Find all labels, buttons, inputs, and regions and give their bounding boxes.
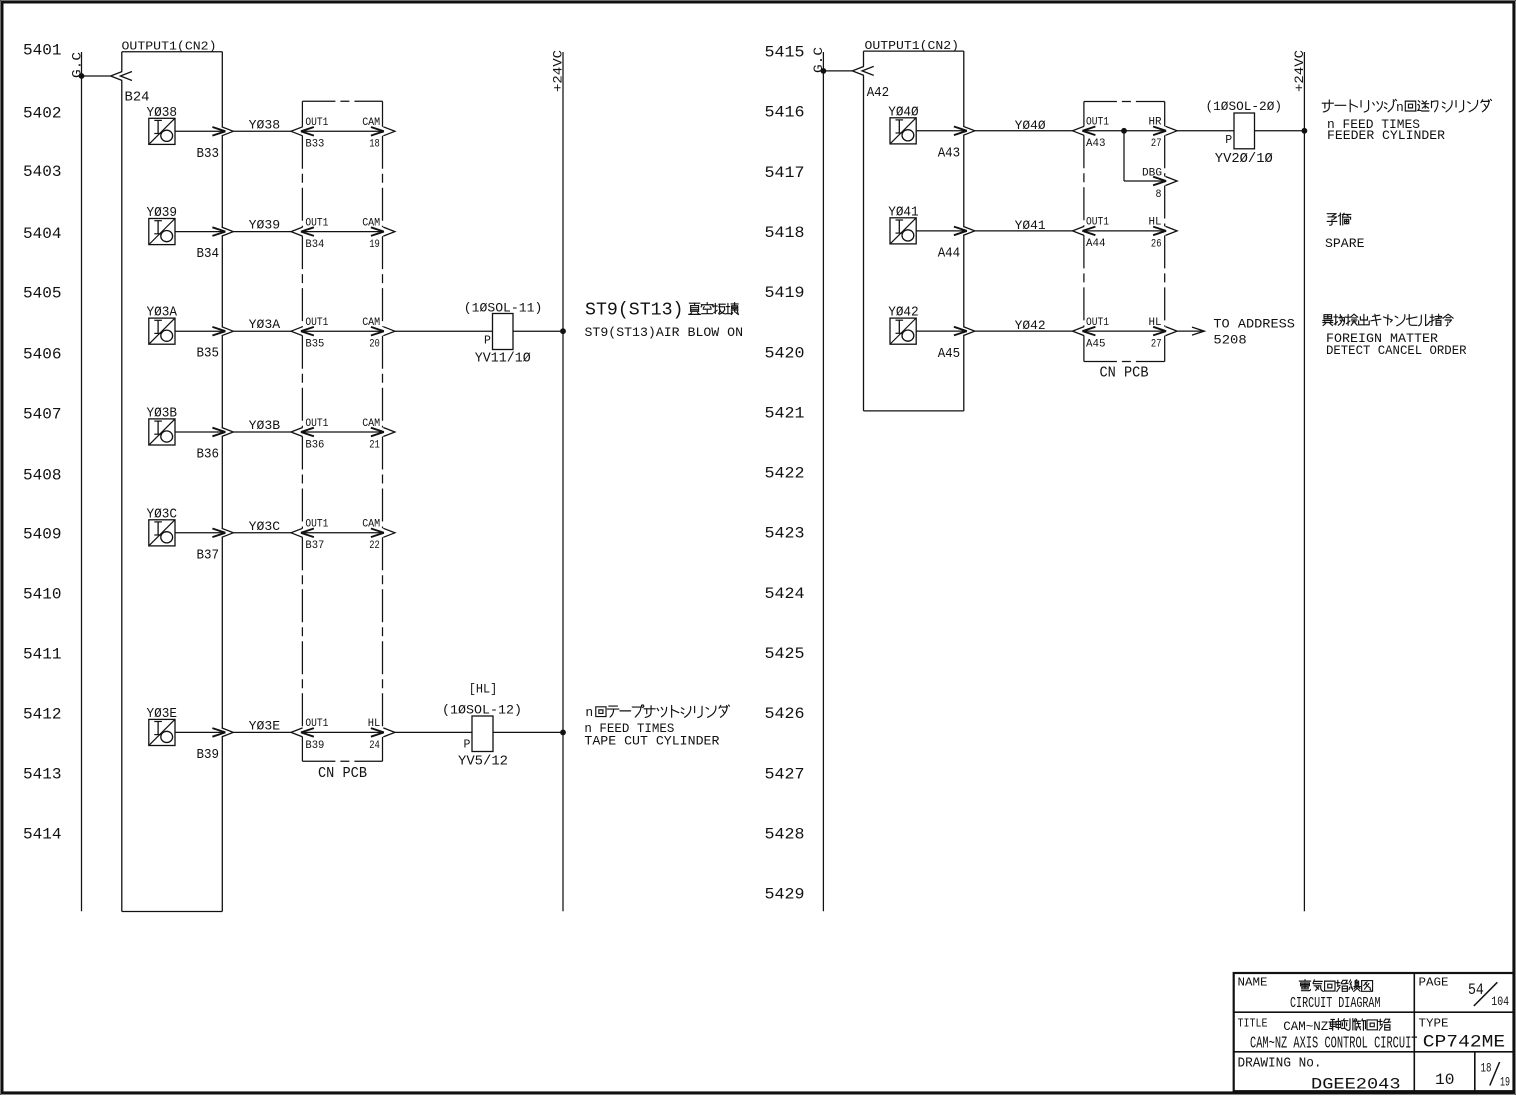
svg-text:B35: B35 — [305, 339, 324, 351]
pin labels OUT1 / A43 — [1086, 117, 1109, 151]
svg-text:5208: 5208 — [1213, 333, 1246, 348]
svg-text:P: P — [464, 739, 471, 752]
svg-text:5413: 5413 — [23, 766, 62, 784]
svg-text:YØ39: YØ39 — [147, 205, 178, 221]
svg-text:A43: A43 — [938, 146, 961, 162]
svg-text:YØ41: YØ41 — [1015, 219, 1046, 233]
svg-text:OUT1: OUT1 — [305, 418, 328, 430]
connector CN PCB dashed box (right) — [1084, 102, 1165, 362]
svg-text:26: 26 — [1151, 238, 1162, 250]
svg-text:YØ39: YØ39 — [249, 219, 280, 233]
svg-text:TYPE: TYPE — [1419, 1017, 1449, 1030]
pin label B24 — [125, 90, 150, 106]
pin label A42 — [867, 85, 890, 101]
label Y038 above driver — [147, 105, 178, 121]
svg-text:5406: 5406 — [23, 346, 62, 364]
label Y03E above driver — [147, 706, 178, 722]
wire OUT1 to CAM inside CN PCB — [301, 330, 384, 332]
label OUTPUT1(CN2) (left) — [122, 40, 217, 54]
svg-text:5429: 5429 — [765, 886, 805, 904]
svg-text:YØ3C: YØ3C — [249, 520, 280, 534]
svg-text:+24VC: +24VC — [551, 50, 566, 92]
svg-text:20: 20 — [369, 339, 380, 351]
svg-text:B24: B24 — [125, 90, 150, 106]
svg-text:YØ41: YØ41 — [888, 204, 919, 220]
svg-text:CAM~NZ: CAM~NZ — [1283, 1019, 1328, 1034]
annotation n feed times tape cut cylinder — [584, 705, 729, 749]
svg-text:18: 18 — [1481, 1060, 1492, 1075]
net G.C (right) — [812, 47, 826, 73]
label Y039 above driver — [147, 205, 178, 221]
pin labels CAM / 19 — [362, 217, 380, 251]
svg-text:n: n — [1396, 100, 1404, 115]
wire Y042 to address 5208 — [1177, 330, 1204, 332]
pin label B39 — [197, 747, 220, 763]
net label Y039 — [249, 219, 280, 233]
connector arrow Y042 at OUTPUT1 edge pin A45 — [954, 327, 975, 336]
svg-text:B33: B33 — [305, 139, 324, 151]
svg-text:5418: 5418 — [765, 224, 805, 242]
svg-text:5424: 5424 — [765, 585, 805, 603]
svg-text:OUT1: OUT1 — [305, 718, 328, 730]
connector arrows Y03E into CN PCB pin B39 — [291, 728, 314, 737]
output driver Y039 (I/O symbol) — [149, 219, 175, 245]
svg-text:A42: A42 — [867, 85, 890, 101]
pin labels HR / 27 — [1149, 117, 1162, 151]
svg-text:CIRCUIT DIAGRAM: CIRCUIT DIAGRAM — [1290, 995, 1381, 1012]
svg-text:5427: 5427 — [765, 765, 805, 783]
label OUTPUT1(CN2) (right) — [865, 39, 960, 53]
svg-text:YØ42: YØ42 — [1015, 319, 1046, 333]
node +24VC junction at Y03E row — [560, 730, 566, 736]
wire solenoid YV5/12 to +24VC — [493, 731, 563, 733]
pin labels HL / 27 — [1149, 317, 1162, 351]
svg-text:B37: B37 — [197, 547, 220, 563]
wire G.C to OUTPUT1(CN2) pin B24 — [82, 75, 111, 77]
label [HL] — [469, 682, 498, 697]
svg-text:YØ3A: YØ3A — [249, 318, 281, 332]
node G.C junction (left) — [79, 73, 85, 79]
wire OUT1 to HL inside CN PCB (right) — [1083, 330, 1166, 332]
title block PAGE cell 54/104 — [1419, 977, 1510, 1010]
wire G.C bus (left) — [81, 52, 83, 911]
svg-text:5407: 5407 — [23, 406, 62, 424]
svg-text:P: P — [1225, 134, 1232, 147]
svg-text:PAGE: PAGE — [1419, 977, 1449, 990]
svg-text:19: 19 — [369, 239, 380, 251]
svg-text:OUT1: OUT1 — [305, 117, 328, 129]
pin label A44 — [938, 246, 961, 262]
svg-text:5414: 5414 — [23, 826, 62, 844]
connector arrow Y03C at OUTPUT1 edge pin B37 — [212, 528, 233, 537]
label YV5/12 — [458, 755, 508, 770]
svg-text:OUT1: OUT1 — [305, 317, 328, 329]
pin label B35 — [197, 346, 220, 362]
output driver Y038 (I/O symbol) — [149, 118, 175, 144]
pin labels OUT1 / B33 — [305, 117, 328, 151]
svg-text:5415: 5415 — [765, 44, 805, 62]
svg-text:YØ3E: YØ3E — [147, 706, 178, 722]
svg-text:CP742ME: CP742ME — [1423, 1033, 1505, 1053]
svg-text:B36: B36 — [197, 447, 220, 463]
wire Y041 driver output — [916, 230, 967, 232]
svg-text:A45: A45 — [1086, 338, 1106, 350]
connector CN PCB dashed box (left) — [302, 101, 382, 761]
net label Y03A — [249, 318, 281, 332]
connector arrows Y040 into CN PCB pin A43 — [1073, 126, 1096, 135]
svg-text:YV11/1Ø: YV11/1Ø — [475, 352, 531, 367]
annotation ST9(ST13) air blow — [585, 300, 744, 341]
svg-text:B36: B36 — [305, 439, 324, 451]
svg-text:TITLE: TITLE — [1238, 1017, 1268, 1030]
svg-text:5417: 5417 — [765, 164, 805, 182]
svg-text:TO ADDRESS: TO ADDRESS — [1213, 317, 1295, 332]
svg-text:DRAWING No.: DRAWING No. — [1238, 1057, 1322, 1072]
connector arrow Y041 at OUTPUT1 edge pin A44 — [954, 226, 975, 235]
pin labels OUT1 / A45 — [1086, 317, 1109, 351]
pin labels OUT1 / B34 — [305, 217, 328, 251]
svg-text:21: 21 — [369, 439, 380, 451]
svg-text:[HL]: [HL] — [469, 682, 498, 697]
wire Y042 driver output — [916, 330, 967, 332]
svg-text:YØ3E: YØ3E — [249, 719, 280, 733]
wire OUT1 to CAM inside CN PCB — [301, 532, 384, 534]
label Y03C above driver — [147, 506, 178, 522]
output driver Y041 (I/O symbol) — [890, 218, 916, 244]
output driver Y03C (I/O symbol) — [149, 520, 175, 546]
pin label A45 — [938, 346, 961, 362]
svg-text:DGEE2043: DGEE2043 — [1311, 1076, 1401, 1094]
connector arrows HL out of CN PCB pin 26 — [1153, 226, 1177, 235]
label (10SOL-11) — [464, 301, 543, 316]
pin label B36 — [197, 447, 220, 463]
wire Y03C driver output — [175, 532, 225, 534]
pin label B37 — [197, 547, 220, 563]
+24VC bus (right) — [1292, 50, 1307, 912]
svg-text:104: 104 — [1491, 994, 1509, 1009]
svg-text:5420: 5420 — [765, 344, 805, 362]
label Y040 above driver — [888, 104, 919, 120]
svg-text:OUTPUT1(CN2): OUTPUT1(CN2) — [122, 40, 217, 54]
svg-text:A45: A45 — [938, 346, 961, 362]
title block TYPE cell CP742ME — [1419, 1017, 1506, 1052]
svg-text:5419: 5419 — [765, 284, 805, 302]
svg-text:B39: B39 — [305, 740, 324, 752]
svg-text:CN PCB: CN PCB — [1100, 366, 1149, 382]
wire Y03A to solenoid YV11/10 — [395, 330, 493, 332]
title block frame — [1234, 973, 1514, 1091]
wire G.C to OUTPUT1(CN2) pin A42 — [823, 70, 852, 72]
connector arrow Y03A at OUTPUT1 edge pin B35 — [212, 327, 233, 336]
wire solenoid YV20/10 to +24VC — [1255, 130, 1305, 132]
wire Y03A driver output — [175, 330, 225, 332]
net label Y040 — [1015, 119, 1047, 133]
wire Y03C to CN PCB — [233, 532, 291, 534]
svg-text:DBG: DBG — [1142, 168, 1162, 180]
svg-text:5409: 5409 — [23, 526, 62, 544]
wire Y03E to solenoid YV5/12 — [395, 731, 472, 733]
svg-text:5410: 5410 — [23, 586, 62, 604]
svg-text:27: 27 — [1151, 138, 1162, 150]
connector arrow Y039 at OUTPUT1 edge pin B34 — [212, 227, 233, 236]
title block TITLE cell — [1238, 1017, 1418, 1052]
PLC output connector OUTPUT1(CN2) box (right) — [864, 51, 964, 411]
label YV11/10 — [475, 352, 531, 367]
svg-text:10: 10 — [1435, 1071, 1455, 1089]
node +24VC junction at Y03A row — [560, 328, 566, 334]
svg-text:5401: 5401 — [23, 42, 62, 60]
wire Y038 to CN PCB — [233, 130, 291, 132]
pin label B34 — [197, 246, 220, 262]
wire DBG branch — [1124, 131, 1166, 181]
solenoid YV11/10 (10SOL-11) — [484, 314, 513, 350]
connector arrows DBG pin 8 — [1153, 177, 1177, 186]
svg-text:B34: B34 — [305, 239, 324, 251]
net label Y038 — [249, 118, 280, 132]
net label Y042 — [1015, 319, 1046, 333]
svg-text:YV2Ø/1Ø: YV2Ø/1Ø — [1215, 152, 1273, 167]
svg-text:CN PCB: CN PCB — [318, 766, 367, 782]
pin labels HL / 24 — [368, 718, 381, 752]
connector arrows HR out of CN PCB pin 27 — [1153, 126, 1177, 135]
wire OUT1 to CAM inside CN PCB — [301, 130, 384, 132]
svg-text:B35: B35 — [197, 346, 220, 362]
svg-text:5411: 5411 — [23, 646, 62, 664]
connector arrows CAM out of CN PCB pin 21 — [371, 428, 395, 437]
wire Y03A to CN PCB — [233, 330, 291, 332]
svg-text:YØ38: YØ38 — [249, 118, 280, 132]
svg-text:CAM~NZ AXIS CONTROL CIRCUIT: CAM~NZ AXIS CONTROL CIRCUIT — [1250, 1034, 1418, 1053]
svg-text:B39: B39 — [197, 747, 220, 763]
wire OUT1 to CAM inside CN PCB — [301, 431, 384, 433]
arrow to address 5208 — [1192, 327, 1204, 335]
node +24VC junction at Y040 row — [1302, 128, 1308, 134]
wire OUT1 to CAM inside CN PCB — [301, 231, 384, 233]
wire Y042 to CN PCB — [975, 330, 1073, 332]
svg-text:ST9(ST13)AIR BLOW ON: ST9(ST13)AIR BLOW ON — [585, 325, 744, 340]
svg-text:n: n — [585, 705, 593, 720]
pin label B33 — [197, 146, 220, 162]
svg-text:18: 18 — [369, 139, 380, 151]
wire Y040 driver output — [916, 130, 967, 132]
connector arrows CAM out of CN PCB pin 18 — [371, 127, 395, 136]
svg-text:OUT1: OUT1 — [1086, 317, 1109, 329]
wire OUT1 to HR inside CN PCB (right) — [1083, 130, 1166, 132]
pin labels CAM / 20 — [362, 317, 380, 351]
svg-text:P: P — [484, 335, 491, 348]
wire Y040 to CN PCB — [975, 130, 1073, 132]
connector arrows CAM out of CN PCB pin 22 — [371, 528, 395, 537]
connector chevrons G.C at OUTPUT1(CN2) left edge — [111, 72, 132, 81]
svg-text:B33: B33 — [197, 146, 220, 162]
wire Y041 to CN PCB — [975, 230, 1073, 232]
svg-text:YØ42: YØ42 — [888, 305, 919, 321]
label CN PCB (right) — [1100, 366, 1149, 382]
svg-text:+24VC: +24VC — [1292, 50, 1307, 92]
wire solenoid YV11/10 to +24VC — [513, 330, 563, 332]
right line-number column 5415-5429 — [765, 44, 805, 904]
label Y03B above driver — [147, 406, 178, 422]
svg-text:22: 22 — [369, 540, 380, 552]
svg-text:OUTPUT1(CN2): OUTPUT1(CN2) — [865, 39, 960, 53]
svg-text:FEEDER CYLINDER: FEEDER CYLINDER — [1327, 128, 1445, 143]
net G.C (left) — [71, 52, 85, 78]
wire G.C bus (right) — [822, 52, 824, 911]
connector arrows Y038 into CN PCB pin B33 — [291, 127, 314, 136]
svg-text:DETECT CANCEL ORDER: DETECT CANCEL ORDER — [1326, 343, 1467, 358]
svg-text:B34: B34 — [197, 246, 220, 262]
svg-text:5422: 5422 — [765, 465, 805, 483]
title block NAME cell — [1238, 977, 1381, 1013]
svg-text:5426: 5426 — [765, 705, 805, 723]
wire OUT1 to HL inside CN PCB (right) — [1083, 230, 1166, 232]
net label Y03C — [249, 520, 280, 534]
svg-text:5402: 5402 — [23, 105, 62, 123]
pin labels OUT1 / B35 — [305, 317, 328, 351]
svg-text:YØ3A: YØ3A — [147, 305, 178, 321]
output driver Y03B (I/O symbol) — [149, 419, 175, 445]
pin labels OUT1 / B36 — [305, 418, 328, 452]
connector arrows Y041 into CN PCB pin A44 — [1073, 226, 1096, 235]
svg-text:B37: B37 — [305, 540, 324, 552]
pin labels OUT1 / B39 — [305, 718, 328, 752]
label (10SOL-12) — [442, 703, 522, 718]
svg-text:5405: 5405 — [23, 285, 62, 303]
label (10SOL-20) — [1206, 99, 1283, 114]
wire Y039 to CN PCB — [233, 231, 291, 233]
svg-text:OUT1: OUT1 — [305, 217, 328, 229]
connector arrow Y03E at OUTPUT1 edge pin B39 — [212, 728, 233, 737]
title block sheet 18/19 — [1481, 1060, 1511, 1089]
label TO ADDRESS 5208 — [1213, 317, 1295, 348]
svg-text:SPARE: SPARE — [1325, 236, 1365, 251]
output driver Y03A (I/O symbol) — [149, 318, 175, 344]
output driver Y040 (I/O symbol) — [890, 118, 916, 144]
wire Y03B to CN PCB — [233, 431, 291, 433]
title block sheet number 10 — [1435, 1071, 1455, 1089]
pin label A43 — [938, 146, 961, 162]
svg-text:YØ38: YØ38 — [147, 105, 178, 121]
+24VC bus (left) — [551, 50, 566, 912]
svg-text:OUT1: OUT1 — [305, 519, 328, 531]
svg-text:8: 8 — [1156, 189, 1162, 201]
pin labels CAM / 18 — [362, 117, 380, 151]
svg-text:24: 24 — [369, 740, 380, 752]
pin labels CAM / 22 — [362, 519, 380, 553]
svg-text:A44: A44 — [1086, 238, 1106, 250]
svg-text:5403: 5403 — [23, 163, 62, 181]
pin labels CAM / 21 — [362, 418, 380, 452]
pin labels OUT1 / A44 — [1086, 217, 1109, 251]
connector arrows Y03C into CN PCB pin B37 — [291, 528, 314, 537]
connector arrows Y042 into CN PCB pin A45 — [1073, 327, 1096, 336]
svg-text:YØ3B: YØ3B — [147, 406, 178, 422]
svg-text:YV5/12: YV5/12 — [458, 755, 508, 770]
svg-text:YØ4Ø: YØ4Ø — [1015, 119, 1047, 133]
svg-text:TAPE CUT CYLINDER: TAPE CUT CYLINDER — [584, 734, 719, 749]
svg-text:A44: A44 — [938, 246, 961, 262]
output driver Y042 (I/O symbol) — [890, 318, 916, 344]
svg-text:5412: 5412 — [23, 706, 62, 724]
svg-text:ST9(ST13): ST9(ST13) — [585, 300, 684, 321]
svg-text:19: 19 — [1500, 1074, 1510, 1089]
connector arrows HL out of CN PCB pin 24 — [371, 728, 395, 737]
svg-text:OUT1: OUT1 — [1086, 117, 1109, 129]
svg-text:5404: 5404 — [23, 225, 62, 243]
connector chevrons G.C at OUTPUT1(CN2) right-half edge — [852, 66, 873, 75]
connector arrow Y03B at OUTPUT1 edge pin B36 — [212, 428, 233, 437]
svg-text:NAME: NAME — [1238, 977, 1268, 990]
annotation foreign matter detect cancel order — [1323, 314, 1467, 358]
net label Y03B — [249, 419, 281, 433]
output driver Y03E (I/O symbol) — [149, 719, 175, 745]
wire Y039 driver output — [175, 231, 225, 233]
label Y042 above driver — [888, 305, 919, 321]
connector arrows CAM out of CN PCB pin 20 — [371, 327, 395, 336]
svg-text:YØ3B: YØ3B — [249, 419, 281, 433]
svg-text:OUT1: OUT1 — [1086, 217, 1109, 229]
label Y03A above driver — [147, 305, 178, 321]
net label Y03E — [249, 719, 280, 733]
pin labels DBG / 8 — [1142, 168, 1162, 202]
svg-text:5425: 5425 — [765, 645, 805, 663]
connector arrows Y039 into CN PCB pin B34 — [291, 227, 314, 236]
wire Y03E to CN PCB — [233, 731, 291, 733]
svg-text:5421: 5421 — [765, 404, 805, 422]
svg-text:27: 27 — [1151, 339, 1162, 351]
svg-text:5408: 5408 — [23, 467, 62, 485]
solenoid YV5/12 (10SOL-12) — [464, 716, 494, 752]
connector arrow Y040 at OUTPUT1 edge pin A43 — [954, 126, 975, 135]
svg-text:(1ØSOL-2Ø): (1ØSOL-2Ø) — [1206, 99, 1283, 114]
svg-text:5423: 5423 — [765, 525, 805, 543]
pin labels HL / 26 — [1149, 217, 1162, 251]
wire Y03B driver output — [175, 431, 225, 433]
svg-text:YØ3C: YØ3C — [147, 506, 178, 522]
label CN PCB (left) — [318, 766, 367, 782]
connector arrows Y03A into CN PCB pin B35 — [291, 327, 314, 336]
node G.C junction (right) — [821, 68, 827, 74]
solenoid YV20/10 (10SOL-20) — [1225, 113, 1254, 149]
label YV20/10 — [1215, 152, 1273, 167]
title block DRAWING No. cell — [1238, 1057, 1401, 1094]
svg-text:(1ØSOL-11): (1ØSOL-11) — [464, 301, 543, 316]
annotation spare — [1325, 213, 1365, 251]
connector arrows HL out of CN PCB pin 27 — [1153, 327, 1177, 336]
svg-text:A43: A43 — [1086, 138, 1106, 150]
label Y041 above driver — [888, 204, 919, 220]
svg-text:5416: 5416 — [765, 104, 805, 122]
svg-text:(1ØSOL-12): (1ØSOL-12) — [442, 703, 522, 718]
svg-text:YØ4Ø: YØ4Ø — [888, 104, 919, 120]
wire Y038 driver output — [175, 130, 225, 132]
wire OUT1 to HL inside CN PCB — [301, 731, 384, 733]
left line-number column 5401-5414 — [23, 42, 62, 844]
svg-text:5428: 5428 — [765, 825, 805, 843]
svg-text:54: 54 — [1468, 981, 1484, 999]
net label Y041 — [1015, 219, 1046, 233]
pin labels OUT1 / B37 — [305, 519, 328, 553]
PLC output connector OUTPUT1(CN2) box (left) — [122, 52, 223, 912]
connector arrows CAM out of CN PCB pin 19 — [371, 227, 395, 236]
wire Y03E driver output — [175, 731, 225, 733]
connector arrows Y03B into CN PCB pin B36 — [291, 428, 314, 437]
annotation cartridge n feeder cylinder — [1322, 99, 1491, 143]
connector arrow Y038 at OUTPUT1 edge pin B33 — [212, 127, 233, 136]
wire Y040 to solenoid YV20/10 — [1177, 130, 1234, 132]
node DBG branch junction — [1121, 128, 1127, 134]
